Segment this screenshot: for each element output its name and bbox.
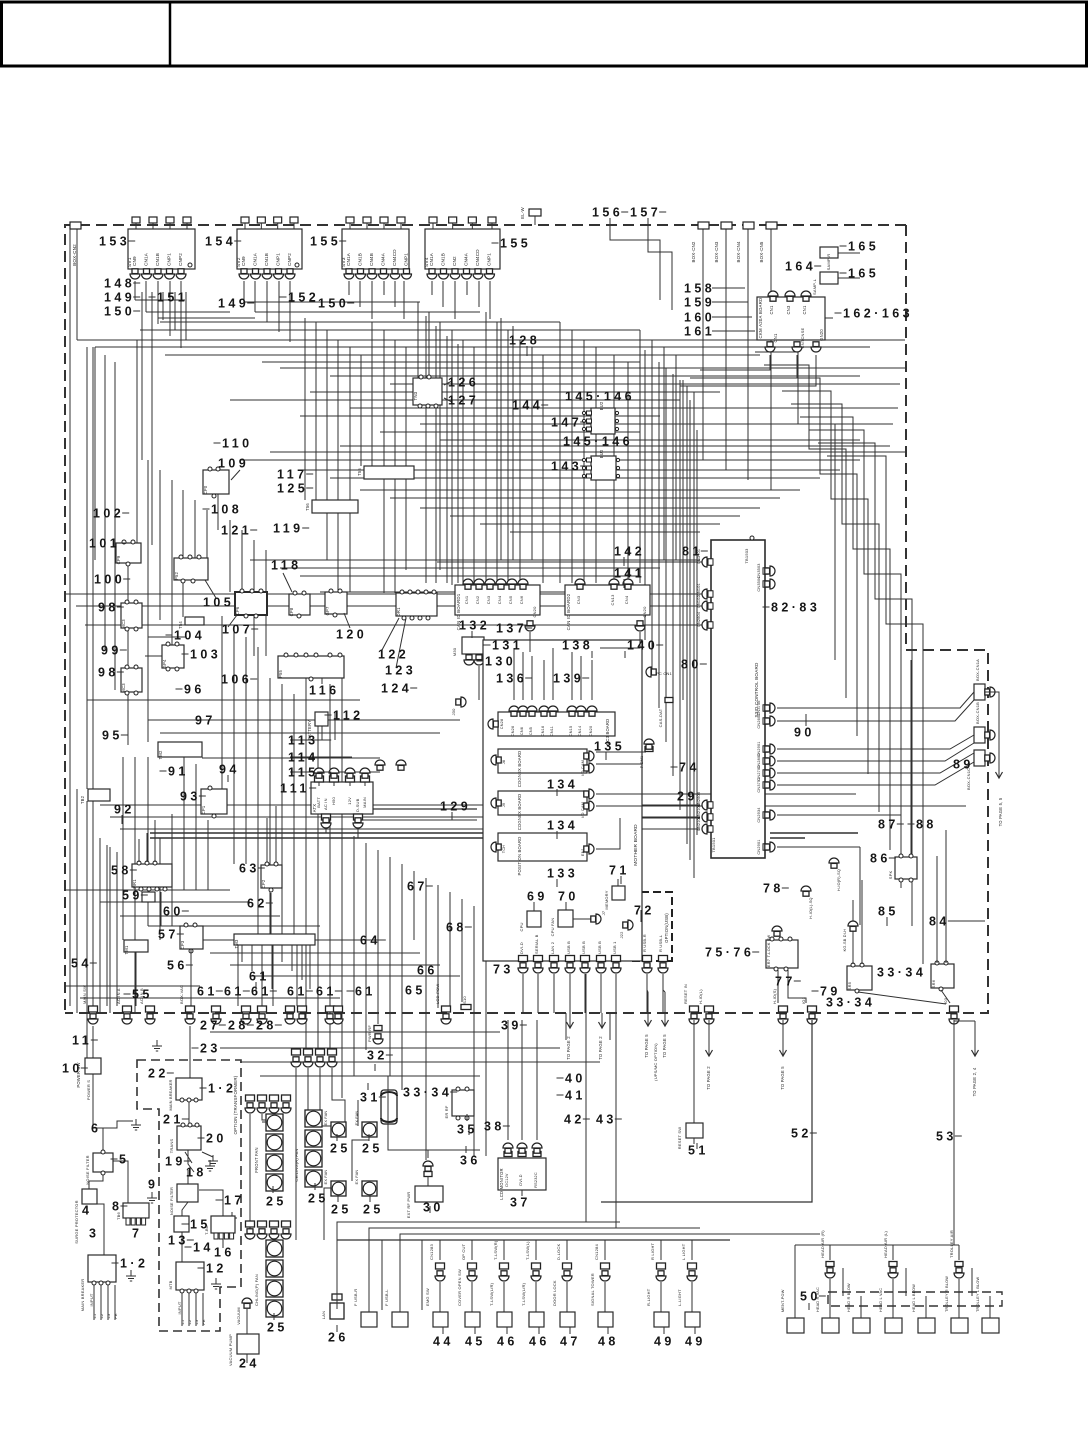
switch 19 bbox=[185, 1152, 192, 1163]
svg-text:148: 148 bbox=[104, 276, 135, 290]
component MC3 (98b) bbox=[121, 668, 142, 692]
svg-text:OPTION(USB): OPTION(USB) bbox=[664, 913, 669, 943]
svg-text:82·83: 82·83 bbox=[771, 600, 820, 614]
svg-text:CN13: CN13 bbox=[610, 594, 615, 606]
svg-text:27: 27 bbox=[200, 1018, 221, 1032]
svg-text:HEAD AIR (R): HEAD AIR (R) bbox=[820, 1230, 825, 1258]
switch DOOR LOCK (47) bbox=[563, 1263, 572, 1269]
component GP7 (120) bbox=[325, 592, 347, 614]
svg-text:TROLLEY L BLOW: TROLLEY L BLOW bbox=[976, 1276, 980, 1312]
svg-text:CN28: CN28 bbox=[500, 719, 504, 730]
svg-text:CN20: CN20 bbox=[589, 726, 593, 737]
battery (112) bbox=[315, 712, 328, 726]
svg-text:SV3: SV3 bbox=[341, 257, 347, 267]
svg-text:117: 117 bbox=[277, 467, 308, 481]
svg-text:25: 25 bbox=[267, 1320, 288, 1334]
svg-text:CP1: CP1 bbox=[201, 805, 206, 814]
svg-text:15: 15 bbox=[190, 1217, 211, 1231]
svg-text:VACUUM PUMP: VACUUM PUMP bbox=[228, 1334, 233, 1366]
terminal TM2 (95) bbox=[158, 742, 202, 757]
svg-text:SV4: SV4 bbox=[424, 257, 430, 267]
small boxes T55/T56 (117/119 area) bbox=[364, 466, 414, 479]
svg-text:S10: S10 bbox=[462, 996, 467, 1004]
svg-text:10: 10 bbox=[62, 1061, 83, 1075]
connector SAMP-R bbox=[820, 247, 838, 258]
svg-text:BOX-CN2: BOX-CN2 bbox=[72, 244, 77, 266]
svg-text:72: 72 bbox=[634, 903, 655, 917]
board POSITION (133) bbox=[498, 833, 587, 861]
svg-text:145·146: 145·146 bbox=[563, 434, 633, 448]
svg-text:125: 125 bbox=[277, 481, 308, 495]
svg-text:BOX-CN5: BOX-CN5 bbox=[759, 241, 764, 262]
callout ticks bbox=[526, 346, 528, 356]
reset sw (51) bbox=[686, 1123, 703, 1138]
svg-text:12V: 12V bbox=[347, 797, 352, 805]
svg-text:IO1: IO1 bbox=[801, 996, 806, 1004]
svg-text:65: 65 bbox=[405, 983, 426, 997]
svg-text:H-IO(L): H-IO(L) bbox=[698, 989, 703, 1004]
svg-text:58: 58 bbox=[111, 863, 132, 877]
header table bbox=[2, 2, 1087, 66]
component CP6 (107) bbox=[235, 592, 267, 615]
svg-text:EN1: EN1 bbox=[581, 848, 585, 856]
svg-text:DOOR LOCK: DOOR LOCK bbox=[552, 1280, 557, 1306]
svg-text:CP2: CP2 bbox=[261, 879, 266, 888]
svg-text:52: 52 bbox=[791, 1126, 812, 1140]
svg-text:142: 142 bbox=[614, 544, 645, 558]
svg-text:61: 61 bbox=[224, 984, 245, 998]
MC3 riser wires bbox=[513, 648, 515, 700]
svg-text:EX FAN: EX FAN bbox=[324, 1111, 328, 1126]
ground 9 bbox=[151, 1192, 153, 1198]
svg-text:46: 46 bbox=[529, 1334, 550, 1348]
svg-text:61: 61 bbox=[251, 984, 272, 998]
svg-text:CN4A: CN4A bbox=[381, 252, 386, 266]
svg-text:D-LOCK: D-LOCK bbox=[556, 1244, 561, 1260]
svg-text:67: 67 bbox=[407, 879, 428, 893]
terminal TM1 (55) bbox=[124, 940, 148, 952]
J30 bell bbox=[456, 699, 461, 705]
svg-text:114: 114 bbox=[288, 750, 319, 764]
main breaker (1-2 left) bbox=[88, 1255, 116, 1282]
svg-text:74: 74 bbox=[679, 760, 700, 774]
svg-text:57: 57 bbox=[158, 927, 179, 941]
switch T-LSW(L/R) (46) bbox=[532, 1263, 541, 1269]
svg-text:CN3504: CN3504 bbox=[757, 576, 761, 591]
switch EMG SW (44) bbox=[436, 1263, 445, 1269]
svg-text:CN3503: CN3503 bbox=[757, 563, 761, 578]
switch R-LIGHT (49) bbox=[657, 1263, 666, 1269]
svg-text:134: 134 bbox=[547, 777, 578, 791]
wire mesh bbox=[134, 281, 136, 300]
svg-text:133: 133 bbox=[547, 866, 578, 880]
svg-text:CNP1: CNP1 bbox=[276, 253, 281, 266]
svg-text:116: 116 bbox=[309, 683, 340, 697]
svg-text:J8: J8 bbox=[502, 760, 506, 764]
svg-text:157: 157 bbox=[630, 205, 661, 219]
svg-text:29: 29 bbox=[677, 789, 698, 803]
bell row 2 bbox=[292, 1049, 301, 1055]
svg-text:CNTCNSE: CNTCNSE bbox=[800, 328, 805, 349]
svg-text:102: 102 bbox=[93, 506, 124, 520]
svg-text:T-LSW(L): T-LSW(L) bbox=[525, 1241, 530, 1260]
component T54 (104) bbox=[185, 617, 204, 625]
52 line bbox=[601, 1020, 812, 1202]
connector EL-W bbox=[529, 209, 541, 216]
svg-text:25: 25 bbox=[362, 1141, 383, 1155]
switch L-LIGHT (49) bbox=[688, 1263, 697, 1269]
svg-text:CN4A: CN4A bbox=[464, 252, 469, 266]
svg-text:CN26: CN26 bbox=[511, 726, 515, 737]
svg-text:22: 22 bbox=[148, 1066, 169, 1080]
svg-text:CN3: CN3 bbox=[786, 305, 791, 314]
svg-text:25: 25 bbox=[330, 1141, 351, 1155]
svg-text:CP3: CP3 bbox=[180, 940, 185, 949]
svg-text:OP CUT: OP CUT bbox=[461, 1243, 466, 1260]
svg-text:USB 1: USB 1 bbox=[612, 941, 617, 954]
svg-text:138: 138 bbox=[562, 638, 593, 652]
svg-text:75·76: 75·76 bbox=[705, 945, 754, 959]
component CP2 (63) bbox=[261, 865, 282, 888]
svg-text:115: 115 bbox=[288, 765, 319, 779]
svg-text:SV2: SV2 bbox=[236, 257, 242, 267]
svg-text:70: 70 bbox=[558, 889, 579, 903]
TB6 (7/8) bbox=[123, 1203, 149, 1218]
svg-text:110: 110 bbox=[222, 436, 253, 450]
svg-text:H-IO(R)-SQ: H-IO(R)-SQ bbox=[837, 869, 841, 891]
svg-text:46: 46 bbox=[497, 1334, 518, 1348]
svg-text:CN1B: CN1B bbox=[358, 253, 363, 266]
svg-text:CN4: CN4 bbox=[624, 595, 629, 604]
svg-text:155: 155 bbox=[500, 236, 531, 250]
svg-text:F USB-L: F USB-L bbox=[384, 1289, 389, 1306]
svg-text:T-LOCK SW: T-LOCK SW bbox=[767, 934, 771, 957]
svg-text:MR1: MR1 bbox=[132, 879, 137, 889]
svg-text:126: 126 bbox=[448, 375, 479, 389]
svg-text:93: 93 bbox=[180, 789, 201, 803]
svg-text:137: 137 bbox=[496, 621, 527, 635]
component CP0 (108/109) bbox=[203, 470, 229, 494]
svg-text:TB1501: TB1501 bbox=[711, 837, 716, 853]
svg-text:RS232C: RS232C bbox=[534, 1172, 538, 1188]
svg-text:CN1: CN1 bbox=[769, 305, 774, 314]
PWR RF connector bbox=[374, 1026, 382, 1031]
vacuum pump bell bbox=[244, 1303, 250, 1308]
svg-text:73: 73 bbox=[493, 962, 514, 976]
I/O CAM stub wires bbox=[596, 751, 646, 753]
svg-text:CN6: CN6 bbox=[519, 595, 524, 604]
switch COVER OPEN SW (45) bbox=[468, 1263, 477, 1269]
svg-text:5: 5 bbox=[119, 1152, 129, 1166]
svg-text:128: 128 bbox=[509, 333, 540, 347]
svg-text:149: 149 bbox=[104, 290, 135, 304]
svg-text:25: 25 bbox=[266, 1194, 287, 1208]
svg-text:CN4CD: CN4CD bbox=[475, 249, 480, 266]
svg-text:CN1: CN1 bbox=[802, 305, 807, 314]
svg-text:20: 20 bbox=[206, 1131, 227, 1145]
svg-text:111: 111 bbox=[280, 781, 310, 795]
MTB breaker (12) bbox=[176, 1262, 204, 1290]
svg-text:ER RF: ER RF bbox=[444, 1105, 449, 1118]
vacuum pump (24) bbox=[237, 1334, 259, 1354]
ex fan top pair (25/25) bbox=[331, 1122, 346, 1137]
svg-text:101: 101 bbox=[89, 536, 120, 550]
svg-text:MTB: MTB bbox=[168, 1280, 173, 1289]
svg-text:139: 139 bbox=[553, 671, 584, 685]
svg-text:H-IO(S): H-IO(S) bbox=[772, 988, 777, 1004]
svg-text:J9: J9 bbox=[502, 803, 506, 807]
svg-text:J7: J7 bbox=[601, 910, 606, 915]
ATX board (111) bbox=[311, 782, 373, 814]
svg-text:121: 121 bbox=[221, 523, 252, 537]
svg-text:J22: J22 bbox=[619, 931, 624, 939]
svg-text:66: 66 bbox=[417, 963, 438, 977]
svg-text:31: 31 bbox=[360, 1090, 381, 1104]
svg-text:161: 161 bbox=[684, 324, 715, 338]
svg-text:CN4B: CN4B bbox=[369, 253, 374, 266]
board CKM A20A bbox=[757, 297, 825, 340]
svg-text:85: 85 bbox=[878, 904, 899, 918]
svg-text:159: 159 bbox=[684, 295, 715, 309]
svg-text:118: 118 bbox=[271, 558, 302, 572]
air connectors bbox=[826, 1262, 834, 1267]
small box 59 bbox=[142, 892, 155, 902]
svg-text:55: 55 bbox=[132, 987, 153, 1001]
svg-text:SIGNAL TOWER: SIGNAL TOWER bbox=[590, 1273, 595, 1306]
component SPK (86) bbox=[895, 857, 917, 879]
svg-text:47: 47 bbox=[560, 1334, 581, 1348]
svg-text:165: 165 bbox=[848, 266, 879, 280]
svg-text:DVI-D: DVI-D bbox=[519, 942, 524, 954]
svg-text:INPUT: INPUT bbox=[89, 1293, 94, 1306]
switch T-LSW(L/R) (46) bbox=[500, 1263, 509, 1269]
switch SIGNAL TOWER (48) bbox=[601, 1263, 610, 1269]
T-LOCK SW label bbox=[774, 931, 780, 936]
svg-text:119: 119 bbox=[273, 521, 304, 535]
svg-text:CN1284: CN1284 bbox=[594, 1244, 599, 1260]
component SR6 (33-34b) bbox=[931, 964, 954, 988]
power sw (10) bbox=[85, 1058, 101, 1074]
svg-text:BATT: BATT bbox=[316, 797, 321, 808]
svg-text:11: 11 bbox=[72, 1033, 92, 1047]
S10 connector bbox=[461, 1005, 471, 1010]
svg-text:I/O CAM: I/O CAM bbox=[581, 802, 585, 818]
svg-text:TB2: TB2 bbox=[80, 795, 85, 804]
svg-text:CN3756: CN3756 bbox=[757, 700, 761, 715]
svg-text:LAN 2: LAN 2 bbox=[550, 941, 555, 954]
svg-text:160: 160 bbox=[684, 310, 715, 324]
M-CAN connector (136) bbox=[516, 663, 524, 668]
svg-text:32: 32 bbox=[367, 1048, 388, 1062]
svg-text:143: 143 bbox=[551, 459, 582, 473]
connector BOX-CN2 left bbox=[70, 222, 81, 229]
svg-text:R-LIGHT: R-LIGHT bbox=[646, 1288, 651, 1306]
svg-text:CN6: CN6 bbox=[520, 727, 524, 735]
svg-text:TO PAGE 2: TO PAGE 2 bbox=[566, 1036, 571, 1060]
svg-text:TB1503: TB1503 bbox=[744, 548, 749, 564]
26 LAN connector bbox=[332, 1294, 342, 1300]
connector block SV4 bbox=[424, 217, 500, 279]
svg-text:DC12V: DC12V bbox=[505, 1173, 509, 1187]
svg-text:TRANS: TRANS bbox=[169, 1139, 174, 1154]
svg-text:43: 43 bbox=[596, 1112, 617, 1126]
svg-text:33·34: 33·34 bbox=[403, 1085, 452, 1099]
connector SAMP-L bbox=[820, 272, 838, 284]
svg-text:EX FAN: EX FAN bbox=[355, 1111, 359, 1126]
svg-text:TM2: TM2 bbox=[158, 750, 163, 759]
box TROLLEY L BLOW bbox=[982, 1318, 999, 1333]
svg-text:CPU: CPU bbox=[519, 922, 524, 931]
svg-text:94: 94 bbox=[219, 762, 240, 776]
svg-text:CN2604: CN2604 bbox=[697, 612, 701, 627]
component P52 (105) bbox=[174, 558, 208, 580]
bottom border connectors bbox=[89, 1006, 98, 1012]
svg-text:TO PAGE 5: TO PAGE 5 bbox=[662, 1034, 667, 1058]
svg-text:30: 30 bbox=[423, 1200, 444, 1214]
svg-text:60: 60 bbox=[163, 904, 184, 918]
svg-text:TROLLEY R BLOW: TROLLEY R BLOW bbox=[945, 1276, 949, 1312]
svg-text:R USB-L: R USB-L bbox=[658, 934, 663, 952]
component CP1 (93) bbox=[201, 789, 227, 814]
svg-text:136: 136 bbox=[496, 671, 527, 685]
svg-text:BOX-CN1B: BOX-CN1B bbox=[975, 702, 980, 724]
svg-text:96: 96 bbox=[184, 682, 205, 696]
svg-text:P52: P52 bbox=[174, 572, 179, 581]
svg-text:(UPS/MC OPTION): (UPS/MC OPTION) bbox=[653, 1043, 658, 1081]
lower bell row bbox=[246, 1221, 255, 1227]
svg-text:HEAD AIR (L): HEAD AIR (L) bbox=[883, 1230, 888, 1258]
box TROLLEY R BLOW bbox=[951, 1318, 968, 1333]
svg-text:127: 127 bbox=[448, 393, 479, 407]
dashed rect 50 bbox=[828, 1292, 1002, 1306]
region box 33-34 bbox=[388, 1075, 480, 1077]
svg-text:CPU FAN: CPU FAN bbox=[550, 918, 555, 937]
svg-text:H50: H50 bbox=[331, 796, 336, 805]
svg-text:CP9: CP9 bbox=[116, 555, 121, 564]
svg-text:NOISE FILTER: NOISE FILTER bbox=[170, 1187, 174, 1215]
svg-text:T-LSW(L/R): T-LSW(L/R) bbox=[489, 1282, 494, 1306]
svg-text:MAIN: MAIN bbox=[362, 797, 367, 808]
svg-text:97: 97 bbox=[195, 713, 216, 727]
connector TN3 (126/127) bbox=[413, 378, 442, 405]
svg-text:59: 59 bbox=[122, 888, 143, 902]
svg-text:49: 49 bbox=[654, 1334, 675, 1348]
svg-text:165: 165 bbox=[848, 239, 879, 253]
svg-text:CN4: CN4 bbox=[497, 595, 502, 604]
connector block SV2 bbox=[236, 217, 302, 279]
svg-text:CN5: CN5 bbox=[508, 595, 513, 604]
svg-text:TO PAGE 2: TO PAGE 2 bbox=[598, 1036, 603, 1060]
cpu (69) bbox=[527, 911, 541, 927]
blower bus wires bbox=[795, 1244, 959, 1246]
svg-text:CN2901: CN2901 bbox=[757, 839, 761, 854]
svg-text:R USB-R: R USB-R bbox=[642, 934, 647, 952]
svg-text:64: 64 bbox=[360, 933, 381, 947]
mother board outline bbox=[483, 640, 642, 961]
svg-text:135: 135 bbox=[594, 739, 625, 753]
PC-CN1 bell (139) bbox=[611, 689, 617, 694]
svg-text:109: 109 bbox=[218, 456, 249, 470]
BOX-CN1B connector bbox=[974, 727, 985, 743]
svg-text:113: 113 bbox=[288, 733, 319, 747]
svg-text:61: 61 bbox=[355, 984, 376, 998]
svg-text:MAIN BREAKER: MAIN BREAKER bbox=[169, 1079, 173, 1110]
svg-text:123: 123 bbox=[385, 663, 416, 677]
svg-text:41: 41 bbox=[565, 1088, 586, 1102]
svg-text:CN15: CN15 bbox=[569, 726, 573, 737]
bell row above front fan bbox=[246, 1095, 255, 1101]
svg-text:42: 42 bbox=[564, 1112, 585, 1126]
svg-text:T55: T55 bbox=[357, 468, 362, 476]
svg-text:92: 92 bbox=[114, 802, 135, 816]
svg-text:150: 150 bbox=[104, 304, 135, 318]
capacitor 31 bbox=[381, 1090, 397, 1124]
ex fan lower pair (25/25) bbox=[331, 1181, 346, 1196]
svg-text:129: 129 bbox=[440, 799, 471, 813]
svg-text:COGNEX BOARD: COGNEX BOARD bbox=[517, 794, 522, 831]
svg-text:L LIGHT: L LIGHT bbox=[681, 1243, 686, 1260]
svg-text:LAN: LAN bbox=[321, 1311, 326, 1319]
svg-text:24: 24 bbox=[239, 1356, 260, 1370]
BOX-CN1A connector bbox=[974, 684, 985, 700]
svg-text:TCH: TCH bbox=[502, 845, 506, 853]
svg-text:MAIN BREAKER: MAIN BREAKER bbox=[80, 1279, 85, 1312]
box MENT-POW bbox=[787, 1318, 804, 1333]
svg-text:CNP2: CNP2 bbox=[287, 253, 292, 266]
connector P-EM1 bbox=[645, 747, 653, 752]
svg-text:CP0: CP0 bbox=[203, 485, 208, 494]
box HEAD L BLOW bbox=[918, 1318, 935, 1333]
svg-text:1·2: 1·2 bbox=[208, 1081, 236, 1095]
svg-text:RESET SW: RESET SW bbox=[677, 1127, 682, 1149]
svg-text:CHLING(P) FAN: CHLING(P) FAN bbox=[254, 1274, 259, 1306]
svg-text:71: 71 bbox=[609, 863, 630, 877]
svg-text:3: 3 bbox=[89, 1226, 99, 1240]
svg-text:SURGE PROTECTOR: SURGE PROTECTOR bbox=[74, 1200, 79, 1243]
svg-text:CAS-DAT: CAS-DAT bbox=[658, 708, 663, 727]
svg-text:18: 18 bbox=[186, 1165, 207, 1179]
terminal TM3 (long) bbox=[234, 934, 315, 945]
svg-text:T56: T56 bbox=[305, 503, 310, 511]
svg-text:KG-SB DI-H: KG-SB DI-H bbox=[843, 929, 847, 952]
svg-text:61: 61 bbox=[287, 984, 308, 998]
svg-text:53: 53 bbox=[936, 1129, 957, 1143]
svg-text:120: 120 bbox=[336, 627, 367, 641]
svg-text:DVI-D: DVI-D bbox=[519, 1174, 523, 1185]
svg-text:61: 61 bbox=[316, 984, 337, 998]
svg-text:155: 155 bbox=[310, 234, 341, 248]
svg-text:122: 122 bbox=[378, 647, 409, 661]
svg-text:63: 63 bbox=[239, 861, 260, 875]
svg-text:149: 149 bbox=[218, 296, 249, 310]
svg-text:CN1: CN1 bbox=[464, 595, 469, 604]
svg-text:BOX-VAC: BOX-VAC bbox=[179, 985, 184, 1004]
svg-text:SR5: SR5 bbox=[847, 981, 852, 990]
svg-text:MOTHER BOARD: MOTHER BOARD bbox=[633, 824, 639, 866]
svg-text:EX FAN: EX FAN bbox=[324, 1170, 328, 1185]
svg-text:TO PAGE 2: TO PAGE 2 bbox=[706, 1066, 711, 1090]
svg-text:TO PAGE 5: TO PAGE 5 bbox=[644, 1034, 649, 1058]
svg-text:CKM A20A BOARD: CKM A20A BOARD bbox=[758, 298, 763, 339]
reset sw wire bbox=[693, 1020, 695, 1123]
svg-text:112: 112 bbox=[333, 708, 364, 722]
svg-text:F USB-R: F USB-R bbox=[353, 1289, 358, 1306]
svg-text:25: 25 bbox=[331, 1202, 352, 1216]
svg-text:ER7: ER7 bbox=[766, 958, 771, 967]
IC EU0 bbox=[591, 456, 616, 480]
42/43 wires bbox=[585, 974, 587, 1222]
svg-text:61: 61 bbox=[197, 984, 218, 998]
